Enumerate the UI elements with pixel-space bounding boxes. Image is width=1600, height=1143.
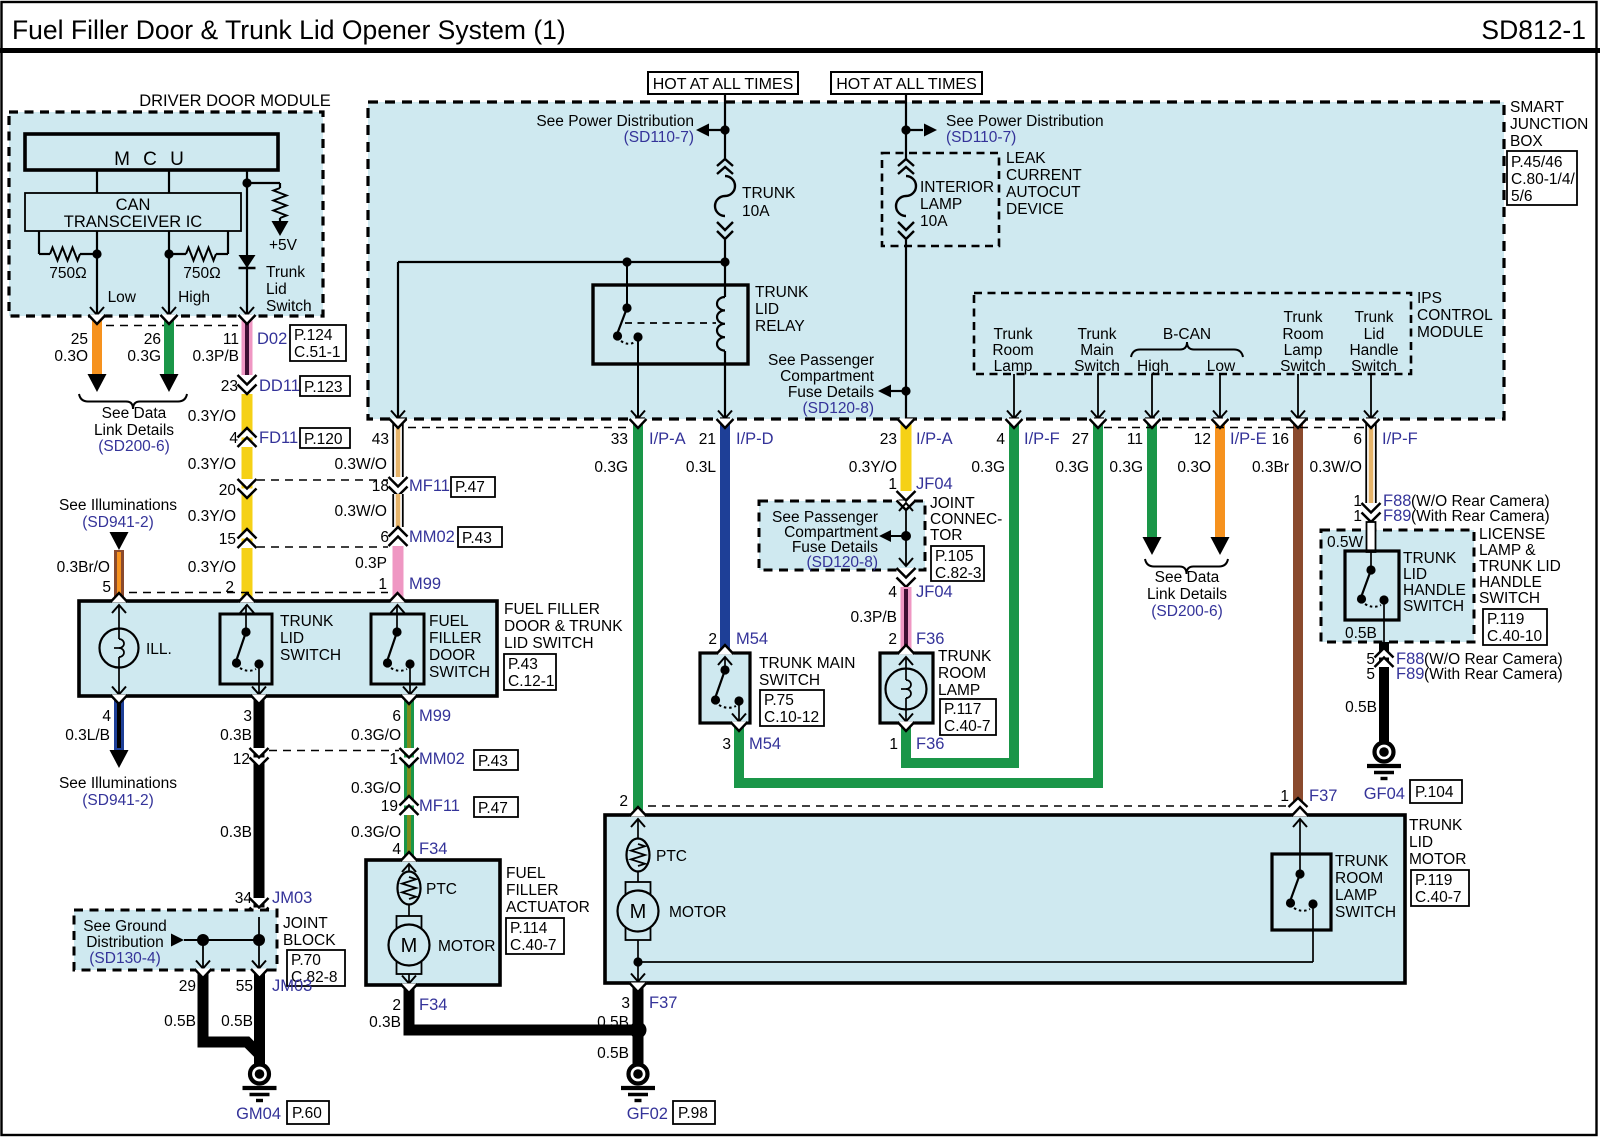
svg-text:0.3G: 0.3G (1109, 459, 1143, 476)
svg-text:BLOCK: BLOCK (283, 932, 336, 949)
inline connector MF11 pin19 (400, 796, 419, 806)
wire hot to interior lamp fuse (905, 94, 907, 160)
svg-text:Handle: Handle (1349, 342, 1398, 359)
svg-text:MM02: MM02 (409, 528, 455, 546)
bus trunk fuse to relay and 43 (398, 261, 725, 263)
svg-text:0.3G: 0.3G (594, 459, 628, 476)
joint block internal bus (171, 934, 184, 947)
wire 0.3G 33 I/P-A (633, 421, 643, 810)
svg-text:Lamp: Lamp (994, 358, 1033, 375)
svg-text:See Data: See Data (1155, 569, 1220, 586)
smart junction box (dashed) (368, 102, 1504, 419)
wire 0.3Y/O chain (242, 394, 253, 601)
svg-text:SWITCH: SWITCH (1479, 590, 1540, 607)
svg-text:12: 12 (1194, 431, 1211, 448)
svg-text:JF04: JF04 (916, 583, 953, 601)
wire 0.3W/O 6 I/P-F (1366, 421, 1377, 506)
svg-text:1: 1 (389, 751, 398, 768)
svg-text:MOTOR: MOTOR (1409, 851, 1466, 868)
svg-text:Trunk: Trunk (993, 326, 1032, 343)
svg-text:18: 18 (372, 478, 389, 495)
svg-text:0.3Y/O: 0.3Y/O (188, 508, 236, 525)
svg-text:0.5B: 0.5B (164, 1013, 196, 1030)
svg-text:0.5B: 0.5B (1345, 699, 1377, 716)
svg-text:P.98: P.98 (678, 1105, 708, 1122)
svg-text:0.3W/O: 0.3W/O (334, 456, 387, 473)
svg-text:(SD130-4): (SD130-4) (89, 950, 161, 967)
svg-text:I/P-A: I/P-A (916, 430, 953, 448)
JF04 internal wire (905, 510, 907, 566)
wire bus down to exit 43 (397, 262, 399, 419)
svg-text:D02: D02 (257, 330, 287, 348)
svg-text:2: 2 (708, 631, 717, 648)
reference P.114 C.40-7 (506, 918, 564, 954)
svg-text:FILLER: FILLER (429, 630, 482, 647)
reference P.45/46 C.80-1/4/5/6 (1507, 151, 1577, 205)
CAN transceiver IC U2 (25, 193, 241, 231)
svg-text:DD11: DD11 (259, 377, 300, 395)
svg-text:6: 6 (380, 529, 389, 546)
joint block (dashed box) (74, 910, 277, 970)
svg-text:I/P-F: I/P-F (1024, 430, 1060, 448)
svg-text:JM03: JM03 (272, 977, 312, 995)
F36 pin1 exit (898, 722, 915, 732)
svg-text:(With Rear Camera): (With Rear Camera) (1411, 508, 1550, 525)
wire 0.5W to handle switch (1367, 522, 1376, 552)
svg-text:C.80-1/4/: C.80-1/4/ (1511, 171, 1575, 188)
svg-text:HANDLE: HANDLE (1479, 574, 1542, 591)
MCU U1 (25, 134, 278, 170)
svg-text:JOINT: JOINT (930, 495, 975, 512)
svg-text:P.120: P.120 (304, 431, 343, 448)
svg-text:P.105: P.105 (935, 548, 974, 565)
node motor to lamp switch bus (633, 957, 642, 966)
svg-text:SWITCH: SWITCH (429, 664, 490, 681)
svg-text:ROOM: ROOM (1335, 870, 1383, 887)
svg-text:High: High (1137, 358, 1169, 375)
svg-text:C.51-1: C.51-1 (294, 344, 341, 361)
svg-text:See Data: See Data (102, 405, 167, 422)
svg-text:(SD120-8): (SD120-8) (807, 554, 879, 571)
wire 0.3Y/O 23 I/P-A (901, 421, 912, 492)
inline connector JM03 pin34 (250, 898, 269, 908)
svg-text:Trunk: Trunk (1283, 309, 1322, 326)
svg-text:FUEL: FUEL (429, 613, 469, 630)
svg-text:Lamp: Lamp (1284, 342, 1323, 359)
svg-text:750Ω: 750Ω (49, 265, 86, 282)
fuel filler door switch SW2 (371, 614, 424, 684)
svg-text:0.3P/B: 0.3P/B (192, 348, 239, 365)
JF04 pin4 exit connector (897, 568, 916, 578)
svg-text:15: 15 (219, 531, 236, 548)
IPS control module (dashed) (974, 293, 1411, 374)
svg-text:C.40-10: C.40-10 (1487, 628, 1543, 645)
ILL lamp (112, 605, 126, 613)
svg-text:LAMP: LAMP (920, 196, 962, 213)
svg-text:HOT AT ALL TIMES: HOT AT ALL TIMES (836, 76, 977, 93)
svg-text:P.43: P.43 (478, 753, 508, 770)
leak current autocut device (dashed) (882, 153, 999, 246)
svg-text:DOOR: DOOR (429, 647, 476, 664)
svg-text:6: 6 (1353, 431, 1362, 448)
svg-text:TOR: TOR (930, 527, 962, 544)
svg-text:Main: Main (1080, 342, 1114, 359)
svg-text:4: 4 (996, 431, 1005, 448)
svg-text:+5V: +5V (269, 237, 298, 254)
wire 0.3O 12 I/P-E B-CAN Low (1215, 421, 1225, 537)
ground GF02 (629, 1065, 648, 1084)
svg-text:0.3P: 0.3P (355, 555, 387, 572)
svg-text:TRANSCEIVER IC: TRANSCEIVER IC (64, 213, 203, 231)
svg-text:LEAK: LEAK (1006, 150, 1046, 167)
driver door module (dashed box) (9, 112, 323, 316)
wire 0.3G 27 loop (739, 421, 1098, 783)
svg-text:CONTROL: CONTROL (1417, 307, 1493, 324)
svg-text:(SD200-6): (SD200-6) (1151, 603, 1223, 620)
svg-text:I/P-F: I/P-F (1382, 430, 1418, 448)
reference P.117 C.40-7 (940, 699, 996, 735)
svg-text:0.3G: 0.3G (971, 459, 1005, 476)
wire 0.5B pin29 (203, 971, 261, 1056)
svg-text:1: 1 (888, 476, 897, 493)
wire 0.3G 4 I/P-F loop (906, 421, 1014, 763)
svg-text:PTC: PTC (656, 848, 687, 865)
svg-text:P.117: P.117 (944, 701, 981, 718)
svg-text:TRUNK: TRUNK (1335, 853, 1389, 870)
svg-text:0.3B: 0.3B (220, 727, 252, 744)
svg-text:SD812-1: SD812-1 (1481, 15, 1586, 45)
motor M (trunk lid) (637, 871, 639, 882)
svg-text:Low: Low (1207, 358, 1236, 375)
reference P.119 C.40-7 (1411, 870, 1469, 906)
svg-text:See Illuminations: See Illuminations (59, 497, 177, 514)
svg-text:0.3Y/O: 0.3Y/O (188, 559, 236, 576)
dashed link 12-1 (269, 750, 399, 752)
svg-text:CONNEC-: CONNEC- (930, 511, 1002, 528)
svg-text:DEVICE: DEVICE (1006, 201, 1064, 218)
wire 0.5B handle switch to ground (1379, 667, 1389, 742)
wire 0.3P MM02 to M99 (393, 546, 404, 601)
svg-text:0.5B: 0.5B (597, 1045, 629, 1062)
svg-text:MOTOR: MOTOR (669, 904, 726, 921)
wire 0.3W/O MF11 to MM02 (393, 494, 404, 527)
svg-text:M54: M54 (736, 630, 768, 648)
svg-text:0.3B: 0.3B (220, 824, 252, 841)
svg-text:MM02: MM02 (419, 750, 465, 768)
svg-text:PTC: PTC (426, 881, 457, 898)
wire MCU to trunk lid switch input (246, 170, 248, 316)
svg-text:P.43: P.43 (508, 656, 538, 673)
wire 0.3W/O 43 to MF11 (393, 421, 404, 478)
wire 0.3G/O pin6 M99 (404, 696, 414, 860)
svg-text:TRUNK: TRUNK (742, 185, 796, 202)
license lamp assembly dashed box (1321, 530, 1474, 642)
svg-text:P.43: P.43 (462, 530, 492, 547)
svg-text:3: 3 (243, 708, 252, 725)
ground GM04 (250, 1065, 269, 1084)
svg-text:Lid: Lid (1364, 326, 1385, 343)
svg-text:10A: 10A (920, 213, 948, 230)
trunk room lamp switch box (1272, 854, 1331, 930)
svg-text:P.124: P.124 (294, 327, 333, 344)
svg-text:P.123: P.123 (304, 379, 343, 396)
brace see data link right (1145, 559, 1228, 574)
svg-text:Switch: Switch (1074, 358, 1120, 375)
dashed connector line above switch box (129, 592, 388, 594)
svg-text:2: 2 (225, 579, 234, 596)
svg-text:ILL.: ILL. (146, 641, 172, 658)
svg-text:F34: F34 (419, 996, 447, 1014)
wire 0.3B F34 pin2 to ground junction (409, 987, 637, 1030)
svg-text:HANDLE: HANDLE (1403, 582, 1466, 599)
dashed link 15-6 (257, 546, 388, 548)
inline connector F88 F89 upper (1362, 503, 1381, 513)
svg-text:19: 19 (381, 798, 398, 815)
svg-text:AUTOCUT: AUTOCUT (1006, 184, 1081, 201)
svg-text:F37: F37 (1309, 787, 1337, 805)
svg-text:25: 25 (71, 331, 88, 348)
resistor 750ohm right (168, 231, 170, 254)
svg-text:SWITCH: SWITCH (1335, 904, 1396, 921)
svg-text:0.3P/B: 0.3P/B (850, 609, 897, 626)
svg-text:(SD110-7): (SD110-7) (946, 129, 1016, 146)
trunk room lamp F36 box (880, 653, 933, 723)
svg-text:21: 21 (699, 431, 716, 448)
svg-text:BOX: BOX (1510, 133, 1543, 150)
trunk room lamp bulb (905, 657, 907, 669)
svg-text:P.119: P.119 (1415, 872, 1452, 889)
JF04 pin1 inline connector (897, 491, 916, 501)
pin4 entry notch (401, 852, 418, 862)
resistor 750ohm left (38, 231, 40, 254)
trunk lid relay K1 (593, 285, 748, 364)
svg-text:F34: F34 (419, 840, 447, 858)
inline connector 12 (250, 748, 269, 758)
svg-text:C.40-7: C.40-7 (510, 937, 557, 954)
svg-text:LAMP: LAMP (1335, 887, 1377, 904)
fuse TRUNK 10A (717, 159, 733, 166)
svg-text:23: 23 (880, 431, 897, 448)
svg-text:C.10-12: C.10-12 (764, 709, 819, 726)
fuel filler door and trunk lid switch assembly box (79, 601, 497, 696)
wire MCU to CAN pin1 (96, 170, 98, 193)
svg-text:Lid: Lid (266, 281, 287, 298)
pull-up resistor to +5V (247, 182, 280, 184)
node power distribution tap right (901, 125, 910, 134)
HOT AT ALL TIMES right (831, 72, 982, 94)
wire 0.3Br/O pin5 (110, 532, 129, 550)
wire 0.5B F37 pin3 to ground (633, 985, 644, 1064)
svg-text:2: 2 (392, 997, 401, 1014)
svg-text:(SD941-2): (SD941-2) (82, 514, 154, 531)
svg-text:JF04: JF04 (916, 475, 953, 493)
pin5 entry notch (111, 593, 128, 603)
inline connector DD11 pin23 (238, 375, 257, 385)
svg-text:4: 4 (229, 430, 238, 447)
reference P.75 C.10-12 (760, 690, 824, 726)
PTC thermistor (trunk motor) (637, 819, 639, 838)
svg-text:DRIVER DOOR MODULE: DRIVER DOOR MODULE (139, 92, 331, 110)
inline connector pin 15 (238, 529, 257, 539)
wire 0.3G 11 B-CAN High (1147, 421, 1157, 537)
svg-text:Fuel Filler Door & Trunk Lid O: Fuel Filler Door & Trunk Lid Opener Syst… (12, 15, 566, 45)
svg-text:1: 1 (1280, 788, 1289, 805)
svg-text:M54: M54 (749, 735, 781, 753)
svg-text:0.5B: 0.5B (597, 1014, 629, 1031)
svg-text:(SD120-8): (SD120-8) (803, 400, 875, 417)
svg-text:0.3Br: 0.3Br (1252, 459, 1289, 476)
svg-text:0.3W/O: 0.3W/O (334, 503, 387, 520)
svg-text:MF11: MF11 (419, 797, 460, 815)
svg-text:M: M (401, 935, 418, 957)
motor feed entry pin2 (630, 807, 647, 817)
svg-text:0.3O: 0.3O (1177, 459, 1211, 476)
svg-text:750Ω: 750Ω (183, 265, 220, 282)
wire 0.3L 21 I/P-D (720, 421, 730, 653)
svg-text:SWITCH: SWITCH (759, 672, 820, 689)
trunk lid handle switch box (1345, 551, 1399, 620)
M54 pin3 exit (731, 722, 748, 732)
svg-text:IPS: IPS (1417, 290, 1442, 307)
HOT AT ALL TIMES left (648, 72, 798, 94)
svg-text:P.104: P.104 (1415, 784, 1454, 801)
inline connector MF11 pin18 (389, 477, 408, 487)
svg-text:JOINT: JOINT (283, 915, 328, 932)
svg-text:2: 2 (619, 793, 628, 810)
ground GF04 (1375, 743, 1394, 762)
svg-text:Trunk: Trunk (1077, 326, 1116, 343)
svg-text:SWITCH: SWITCH (1403, 598, 1464, 615)
svg-text:P.75: P.75 (764, 692, 794, 709)
PTC thermistor (actuator) (402, 864, 416, 872)
svg-text:LICENSE: LICENSE (1479, 526, 1545, 543)
svg-text:0.3L: 0.3L (686, 459, 717, 476)
svg-text:LID: LID (1403, 566, 1427, 583)
wire 0.3P/B JF04 to F36 (901, 587, 912, 653)
svg-text:0.5W: 0.5W (1327, 534, 1364, 551)
dashed connector line above trunk lid motor (648, 805, 1290, 807)
svg-text:55: 55 (236, 978, 253, 995)
svg-text:0.3B: 0.3B (369, 1014, 401, 1031)
svg-text:FD11: FD11 (259, 429, 298, 447)
reference P.124 C.51-1 (290, 325, 346, 361)
wire 0.3O pin25 (92, 317, 102, 374)
reference P.70 C.82-8 (287, 950, 345, 986)
svg-text:High: High (178, 289, 210, 306)
svg-text:Trunk: Trunk (266, 264, 305, 281)
trunk main switch contacts (724, 657, 726, 670)
svg-text:26: 26 (144, 331, 161, 348)
svg-text:LAMP: LAMP (938, 682, 980, 699)
svg-text:F36: F36 (916, 630, 944, 648)
svg-text:29: 29 (179, 978, 196, 995)
svg-text:MF11: MF11 (409, 477, 450, 495)
svg-text:33: 33 (611, 431, 628, 448)
svg-text:LID: LID (1409, 834, 1433, 851)
svg-text:(SD200-6): (SD200-6) (98, 438, 170, 455)
svg-text:10A: 10A (742, 203, 770, 220)
svg-text:B-CAN: B-CAN (1163, 326, 1211, 343)
svg-text:RELAY: RELAY (755, 318, 805, 335)
svg-text:0.3Y/O: 0.3Y/O (188, 456, 236, 473)
svg-text:0.3L/B: 0.3L/B (65, 727, 110, 744)
svg-text:P.47: P.47 (478, 800, 508, 817)
brace see data link (79, 394, 187, 409)
wire CAN High down (168, 254, 170, 316)
svg-text:GM04: GM04 (236, 1105, 281, 1123)
diode trunk lid switch (239, 255, 256, 268)
svg-text:I/P-E: I/P-E (1230, 430, 1267, 448)
svg-text:TRUNK: TRUNK (1403, 550, 1457, 567)
wire CAN Low down (96, 254, 98, 316)
svg-text:See Passenger: See Passenger (768, 352, 874, 369)
svg-text:ROOM: ROOM (938, 665, 986, 682)
svg-text:27: 27 (1072, 431, 1089, 448)
svg-text:M: M (630, 901, 647, 923)
svg-text:LAMP &: LAMP & (1479, 542, 1536, 559)
svg-text:4: 4 (392, 841, 401, 858)
svg-text:DOOR & TRUNK: DOOR & TRUNK (504, 618, 623, 635)
svg-text:12: 12 (233, 751, 250, 768)
svg-text:C.82-3: C.82-3 (935, 565, 982, 582)
svg-text:MODULE: MODULE (1417, 324, 1483, 341)
svg-text:TRUNK: TRUNK (280, 613, 334, 630)
inline connector pin 20 (238, 479, 257, 489)
inline connector MM02 pin6 (389, 527, 408, 537)
reference P.43 C.12-1 (504, 654, 556, 690)
svg-text:5: 5 (1366, 666, 1375, 683)
svg-text:Room: Room (1282, 326, 1323, 343)
wire hot to trunk fuse (724, 94, 726, 160)
svg-text:C.40-7: C.40-7 (944, 718, 991, 735)
svg-text:0.3G/O: 0.3G/O (351, 824, 401, 841)
svg-text:1: 1 (889, 736, 898, 753)
node junction trunk lid switch wire (242, 178, 251, 187)
svg-text:P.119: P.119 (1487, 611, 1524, 628)
svg-text:M C U: M C U (114, 149, 188, 170)
svg-text:M99: M99 (419, 707, 451, 725)
svg-text:TRUNK LID: TRUNK LID (1479, 558, 1561, 575)
svg-text:SWITCH: SWITCH (280, 647, 341, 664)
wire fuse to SJB exit 23 (905, 240, 907, 419)
svg-text:0.3W/O: 0.3W/O (1309, 459, 1362, 476)
svg-text:0.5B: 0.5B (221, 1013, 253, 1030)
svg-text:LID SWITCH: LID SWITCH (504, 635, 594, 652)
svg-text:5/6: 5/6 (1511, 188, 1533, 205)
svg-text:F36: F36 (916, 735, 944, 753)
svg-text:Switch: Switch (1280, 358, 1326, 375)
connector D02 dashed boundary (106, 325, 238, 327)
svg-text:0.5B: 0.5B (1345, 625, 1377, 642)
svg-text:Trunk: Trunk (1354, 309, 1393, 326)
svg-text:Low: Low (108, 289, 137, 306)
svg-text:See Power Distribution: See Power Distribution (946, 113, 1104, 130)
svg-text:P.114: P.114 (510, 920, 548, 937)
svg-text:0.3G: 0.3G (1055, 459, 1089, 476)
svg-text:(SD941-2): (SD941-2) (82, 792, 154, 809)
svg-text:P.47: P.47 (455, 479, 485, 496)
svg-text:1: 1 (378, 576, 387, 593)
svg-text:GF02: GF02 (627, 1105, 668, 1123)
svg-text:Fuse Details: Fuse Details (788, 384, 874, 401)
svg-text:See Illuminations: See Illuminations (59, 775, 177, 792)
svg-text:CURRENT: CURRENT (1006, 167, 1082, 184)
svg-text:TRUNK: TRUNK (938, 648, 992, 665)
svg-text:M99: M99 (409, 575, 441, 593)
svg-text:11: 11 (1127, 431, 1143, 448)
dashed link I/P right connectors (1104, 427, 1365, 429)
svg-text:Link Details: Link Details (94, 422, 174, 439)
